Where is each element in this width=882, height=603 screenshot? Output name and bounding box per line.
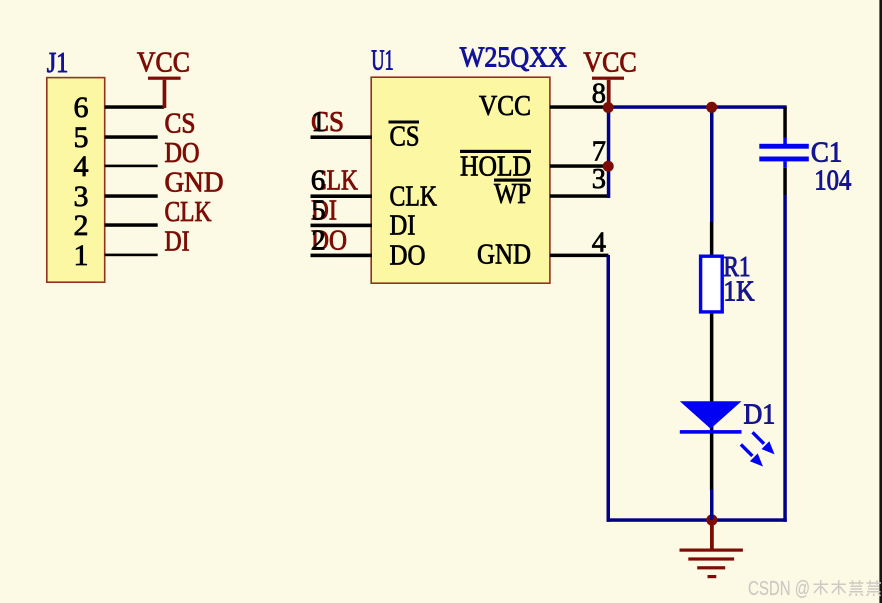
svg-text:4: 4 [74, 150, 89, 183]
U1 pin 3 wire (WP) [550, 194, 610, 198]
svg-text:1K: 1K [723, 277, 755, 308]
svg-text:WP: WP [494, 179, 531, 210]
IC U1 body [371, 77, 550, 283]
svg-text:4: 4 [592, 228, 606, 259]
LED D1 triangle [680, 401, 742, 429]
svg-text:1: 1 [311, 107, 325, 138]
svg-text:VCC: VCC [583, 48, 637, 79]
svg-text:CS: CS [390, 122, 420, 153]
power VCC left bar [148, 77, 181, 80]
resistor R1 top pin [710, 222, 714, 255]
capacitor C1 bottom pin [783, 168, 787, 195]
svg-text:5: 5 [311, 196, 325, 227]
svg-text:U1: U1 [371, 45, 394, 76]
svg-text:2: 2 [74, 209, 89, 242]
U1 pin name HOLD overline [460, 150, 531, 153]
wire VCC top rail [607, 105, 787, 109]
wire C1 vertical [783, 195, 787, 522]
svg-text:CSDN @: CSDN @ [748, 578, 810, 600]
LED D1 light arrow 1 [753, 432, 765, 444]
svg-text:GND: GND [477, 240, 531, 271]
ground symbol bar 2 [688, 557, 734, 560]
svg-text:DO: DO [390, 241, 426, 272]
pin 4 wire [105, 165, 158, 168]
svg-text:104: 104 [814, 166, 851, 197]
wire GND vertical [607, 255, 611, 522]
U1 pin 8 wire (VCC) [550, 105, 609, 109]
power VCC right stub [607, 80, 611, 107]
capacitor C1 top pin [783, 107, 787, 138]
ground symbol stub [710, 520, 714, 549]
svg-text:VCC: VCC [137, 48, 190, 79]
watermark CJK glyphs [814, 580, 882, 596]
svg-text:HOLD: HOLD [460, 152, 531, 183]
wire vertical R1 branch [710, 105, 714, 222]
capacitor C1 top stub [783, 138, 787, 145]
U1 pin 7 wire (HOLD) [550, 164, 610, 168]
pin 1 wire [105, 254, 158, 257]
svg-text:CLK: CLK [165, 197, 212, 228]
power VCC left stub [163, 80, 167, 108]
svg-text:GND: GND [165, 168, 224, 199]
U1 pin 2 wire (DO) [311, 254, 373, 258]
connector J1 body [47, 78, 105, 283]
capacitor C1 plate 1 [759, 144, 809, 149]
U1 pin 1 wire (CS) [311, 135, 373, 139]
wire bottom rail [607, 518, 787, 522]
capacitor C1 bottom stub [783, 161, 787, 167]
LED D1 cathode bar [680, 430, 742, 434]
svg-text:VCC: VCC [479, 91, 531, 122]
ground symbol bar 1 [680, 549, 743, 552]
U1 pin name CS overline [389, 121, 420, 124]
svg-text:2: 2 [311, 226, 325, 257]
U1 pin 5 wire (DI) [311, 224, 373, 228]
svg-text:DO: DO [165, 138, 200, 169]
resistor R1 body [701, 256, 723, 312]
LED D1 light arrow 2 [741, 444, 753, 456]
svg-text:D1: D1 [744, 400, 776, 431]
power VCC right bar [592, 77, 624, 80]
wire LED to bottom rail [710, 489, 714, 520]
pin 6 wire [105, 105, 165, 109]
svg-text:1: 1 [74, 239, 89, 272]
svg-text:6: 6 [311, 166, 325, 197]
junction dot pin7 [603, 161, 614, 172]
ground symbol bar 4 [708, 575, 717, 578]
svg-text:CS: CS [165, 109, 196, 140]
U1 pin name WP overline [494, 179, 531, 182]
pin 3 wire [105, 194, 158, 198]
junction dot bottom rail [706, 514, 717, 525]
U1 pin 4 wire (GND) [550, 254, 609, 258]
pin 5 wire [105, 135, 158, 139]
svg-text:CLK: CLK [390, 182, 438, 213]
junction dot VCC pin8 [603, 102, 614, 113]
U1 pin 6 wire (CLK) [311, 194, 373, 198]
svg-text:C1: C1 [811, 138, 842, 169]
junction dot R1 branch [706, 102, 717, 113]
svg-text:W25QXX: W25QXX [460, 42, 567, 73]
ground symbol bar 3 [697, 566, 725, 569]
svg-text:J1: J1 [47, 48, 69, 79]
svg-text:DI: DI [390, 211, 416, 242]
svg-text:6: 6 [74, 91, 89, 124]
pin 2 wire [105, 223, 158, 227]
wire vertical to pins 7,3 [607, 105, 611, 198]
svg-text:DI: DI [165, 227, 190, 258]
resistor R1 bottom pin [710, 314, 714, 491]
capacitor C1 plate 2 [759, 157, 809, 162]
